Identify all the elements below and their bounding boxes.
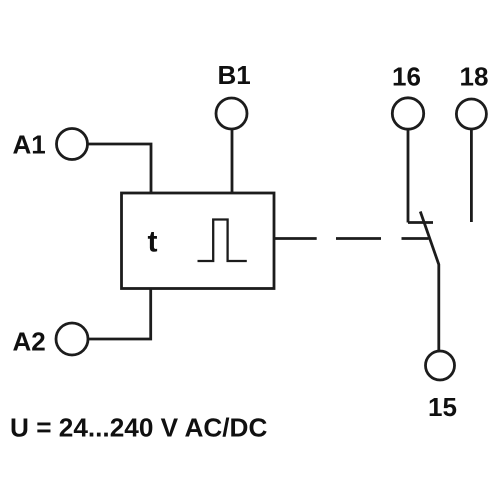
contact seat 16: [408, 221, 433, 224]
wire B1 to box: [231, 130, 234, 194]
svg-text:A2: A2: [13, 327, 46, 357]
svg-text:B1: B1: [218, 60, 251, 90]
svg-text:U = 24...240 V AC/DC: U = 24...240 V AC/DC: [10, 413, 267, 443]
pulse symbol inside box: [198, 220, 247, 262]
wire terminal 16 down: [407, 130, 410, 223]
svg-text:A1: A1: [13, 130, 46, 160]
dashed actuator link: [274, 237, 429, 240]
svg-text:15: 15: [428, 392, 457, 422]
wire A2 to box: [89, 289, 151, 340]
wire A1 to box: [88, 144, 151, 193]
terminal 16 circle: [392, 98, 423, 129]
terminal A2 circle: [56, 323, 88, 355]
timer function box K1: [122, 193, 275, 289]
svg-text:16: 16: [392, 62, 421, 92]
terminal A1 circle: [57, 129, 88, 160]
terminal 15 circle: [426, 351, 455, 380]
svg-text:t: t: [148, 226, 158, 259]
contact arm 15-16: [420, 212, 439, 352]
terminal 18 circle: [456, 99, 486, 129]
terminal B1 circle: [216, 98, 247, 129]
svg-text:18: 18: [460, 62, 489, 92]
wire terminal 18 down: [470, 130, 473, 223]
